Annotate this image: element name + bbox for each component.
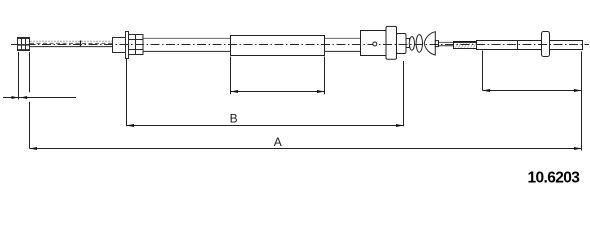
boot bell (flared end)	[424, 32, 435, 55]
extension line from sleeve left end	[230, 57, 232, 95]
wire: cable stop tick on left cable	[80, 41, 82, 47]
extension line from sleeve right end	[324, 57, 326, 95]
svg-text:10.6203: 10.6203	[528, 170, 581, 187]
wire: outer conduit between flange fitting and main body	[140, 38, 361, 51]
main body collar ring	[386, 26, 397, 59]
extension line from left fitting (right edge, down to dim A)	[29, 52, 31, 149]
main body end block	[397, 34, 407, 54]
flange fitting ribbed section (right block)	[129, 35, 144, 55]
flange fitting body (left block)	[113, 38, 126, 53]
dimension line A	[30, 147, 582, 150]
extension line from right tube right end (down to dim A)	[581, 52, 583, 151]
boot neck	[406, 39, 410, 48]
main body fitting block	[361, 31, 387, 56]
dimension line B	[127, 124, 404, 127]
wire: inner cable between boot and spiral section	[436, 42, 454, 45]
hole in main body	[373, 42, 377, 46]
extension line from main body (down to dim B)	[403, 61, 405, 126]
right tube divider joint	[517, 41, 519, 50]
extension line from left fitting (left edge)	[18, 52, 20, 100]
boot nipple	[435, 41, 438, 47]
svg-text:B: B	[230, 111, 238, 125]
flange fitting mounting plate	[126, 32, 129, 59]
right tube dimension line	[483, 89, 582, 92]
adjuster collar on right tube	[542, 32, 550, 57]
small dimension line for left fitting	[3, 96, 76, 99]
extension line from right tube left end	[482, 51, 484, 91]
right outer conduit tube	[477, 41, 583, 50]
spiral armour section	[454, 42, 477, 49]
extension line from flange fitting (down to dim B)	[126, 59, 128, 127]
wire: center axis dash-dot line	[11, 44, 589, 46]
boot rib 1	[409, 37, 414, 51]
boot rib 2	[416, 35, 422, 53]
protective sleeve on conduit	[231, 36, 325, 56]
sleeve dimension line	[231, 90, 325, 93]
left end fitting (barrel nipple)	[17, 38, 30, 51]
svg-text:A: A	[274, 135, 282, 149]
wire: inner cable left segment (spiral texture)	[30, 41, 113, 46]
